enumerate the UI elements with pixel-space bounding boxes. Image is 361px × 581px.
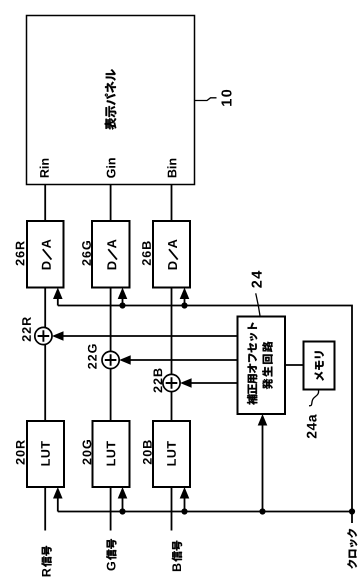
reference numeral 26B [142,241,151,265]
label メモリ (memory) [315,351,324,380]
memory box 24a [304,342,335,390]
reference numeral 26R [16,241,25,265]
arrowhead into adder 22G [119,355,131,365]
label LUT [107,441,116,465]
junction dot at clock corner [349,508,355,514]
reference numeral 26G [82,241,91,266]
reference numeral 20G [83,440,92,465]
wire R: LUT 20R to adder 22R [44,345,46,421]
pin label Bin [167,159,176,178]
wire B: D/A 26B output to display panel Bin [171,185,173,222]
label 発生回路 line 2 [262,342,272,390]
arrowhead into adder 22B [180,378,192,388]
junction dot [181,302,187,308]
reference numeral 24a [307,414,317,438]
wire: offset circuit 24 to adder 22G [129,359,237,361]
wire stub into D/A 26G [122,294,124,306]
junction dot [119,508,125,514]
wire B: B signal input to LUT 20B [171,487,173,531]
D/A converter 26R [27,221,64,288]
label D/A [42,239,52,269]
junction dot [181,508,187,514]
adder (summing node) 22B [163,374,180,391]
arrowhead into LUT 20B [180,487,190,499]
LUT 20G [93,421,130,487]
D/A converter 26B [153,221,190,288]
arrowhead into LUT 20R [53,487,63,499]
reference numeral 22B [153,368,162,392]
adder (summing node) 22R [35,327,52,344]
D/A converter 26G [92,221,130,288]
leader line for reference 10 [195,98,217,101]
label クロック (clock input) [347,529,357,569]
adder (summing node) 22G [102,351,119,368]
label D/A [168,239,178,269]
wire: offset circuit 24 to memory 24a [285,364,304,366]
wire G: D/A 26G output to display panel Gin [110,185,112,222]
reference numeral 22R [22,317,31,341]
reference numeral 20R [16,440,25,464]
wire stub into D/A 26R [57,294,59,306]
label R信号 (R signal input) [41,546,51,576]
label 表示パネル (display panel) [105,69,117,129]
junction dot [119,302,125,308]
wire: offset circuit 24 to adder 22B [190,382,237,384]
LUT 20B [153,421,190,487]
label D/A [107,239,117,269]
leader squiggle for reference 24a [309,390,319,406]
arrowhead into adder 22R [52,331,64,341]
reference numeral 20B [143,440,152,464]
display panel box 10 [27,16,195,185]
arrowhead into D/A 26R [53,288,63,300]
wire G: adder 22G to D/A 26G [110,288,112,352]
pin label Rin [40,159,49,178]
wire stub into D/A 26B [184,294,186,306]
arrowhead into offset circuit 24 [258,414,268,426]
wire B: LUT 20B to adder 22B [171,392,173,421]
correction offset generation circuit 24 [238,317,286,415]
wire: clock input stub [351,512,353,524]
pin label Gin [106,158,115,178]
label G信号 (G signal input) [106,539,116,570]
wire: clock to offset circuit 24 [262,420,264,512]
wire: offset circuit 24 to adder 22R [62,335,238,337]
wire R: adder 22R to D/A 26R [44,288,46,328]
wire R: D/A 26R output to display panel Rin [44,185,46,222]
wire stub into LUT 20G [122,493,124,512]
label LUT [41,441,50,465]
junction dot [259,508,265,514]
wire: clock distribution line to D/A converters [58,306,352,512]
reference numeral 24 [252,271,262,288]
reference numeral 22G [88,344,97,369]
label B信号 (B signal input) [172,541,182,571]
wire B: adder 22B to D/A 26B [171,288,173,375]
label 補正用オフセット line 1 [247,323,257,405]
wire stub into LUT 20R [57,493,59,512]
arrowhead into D/A 26G [118,288,128,300]
reference numeral 10 [221,90,231,106]
arrowhead into D/A 26B [180,288,190,300]
arrowhead into LUT 20G [118,487,128,499]
LUT 20R [27,421,64,487]
wire stub into LUT 20B [184,493,186,512]
wire: clock distribution line to LUTs [58,511,352,513]
leader line for reference 24 [256,293,261,317]
wire R: R signal input to LUT 20R [44,487,46,531]
wire G: LUT 20G to adder 22G [110,369,112,421]
wire G: G signal input to LUT 20G [110,487,112,531]
label LUT [167,441,176,465]
